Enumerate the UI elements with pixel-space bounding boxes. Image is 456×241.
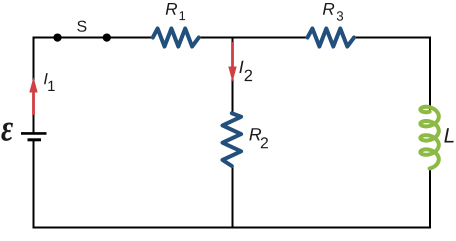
resistor R2 xyxy=(223,113,242,166)
label R3 xyxy=(323,3,334,15)
wire between R1 and R3 xyxy=(199,37,308,39)
label I2 xyxy=(239,61,243,73)
wire left rail below battery xyxy=(33,140,35,229)
label S (switch) xyxy=(77,21,86,32)
battery short plate (negative) xyxy=(28,138,42,141)
current arrow I1 (up) xyxy=(29,77,37,115)
switch S right contact dot xyxy=(103,33,111,41)
middle rail top (node to R2) xyxy=(232,38,234,114)
switch S left contact dot xyxy=(53,33,61,41)
right rail below inductor xyxy=(429,168,431,229)
middle rail bottom (R2 to bottom wire) xyxy=(232,166,234,228)
wire R3 to top-right corner down to inductor xyxy=(355,38,430,112)
label EMF script epsilon xyxy=(1,123,13,141)
resistor R1 xyxy=(153,29,199,47)
resistor R3 xyxy=(308,29,355,47)
current arrow I2 (down) xyxy=(228,42,236,82)
label R1 xyxy=(166,3,177,15)
battery long plate (positive) xyxy=(21,132,47,135)
bottom wire xyxy=(33,227,432,229)
wire top-left corner + left rail to battery xyxy=(34,38,153,134)
inductor L coil xyxy=(420,107,438,169)
label L (inductor) xyxy=(444,128,453,142)
label R2 xyxy=(249,128,261,140)
label I1 xyxy=(44,73,48,84)
